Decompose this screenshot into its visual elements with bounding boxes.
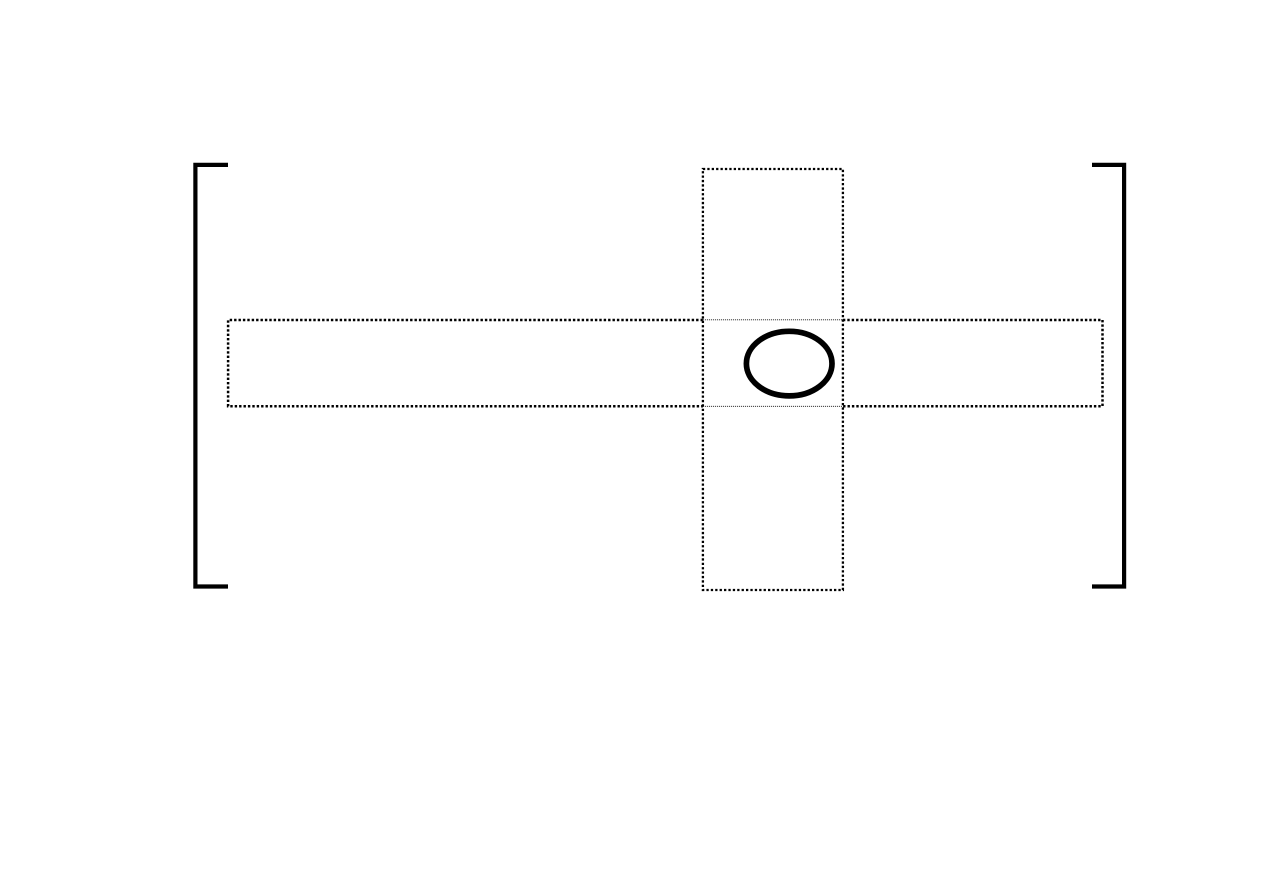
row band dotted border, right part bbox=[843, 320, 1103, 406]
intersection cell thin dotted bottom edge bbox=[703, 405, 843, 407]
row band dotted border, left part bbox=[228, 320, 703, 406]
intersection cell thin dotted top edge bbox=[703, 319, 843, 321]
intersection highlight ellipse bbox=[746, 331, 832, 396]
matrix right bracket bbox=[1092, 165, 1124, 587]
matrix left bracket bbox=[195, 165, 228, 587]
column band dotted border bbox=[703, 169, 843, 590]
